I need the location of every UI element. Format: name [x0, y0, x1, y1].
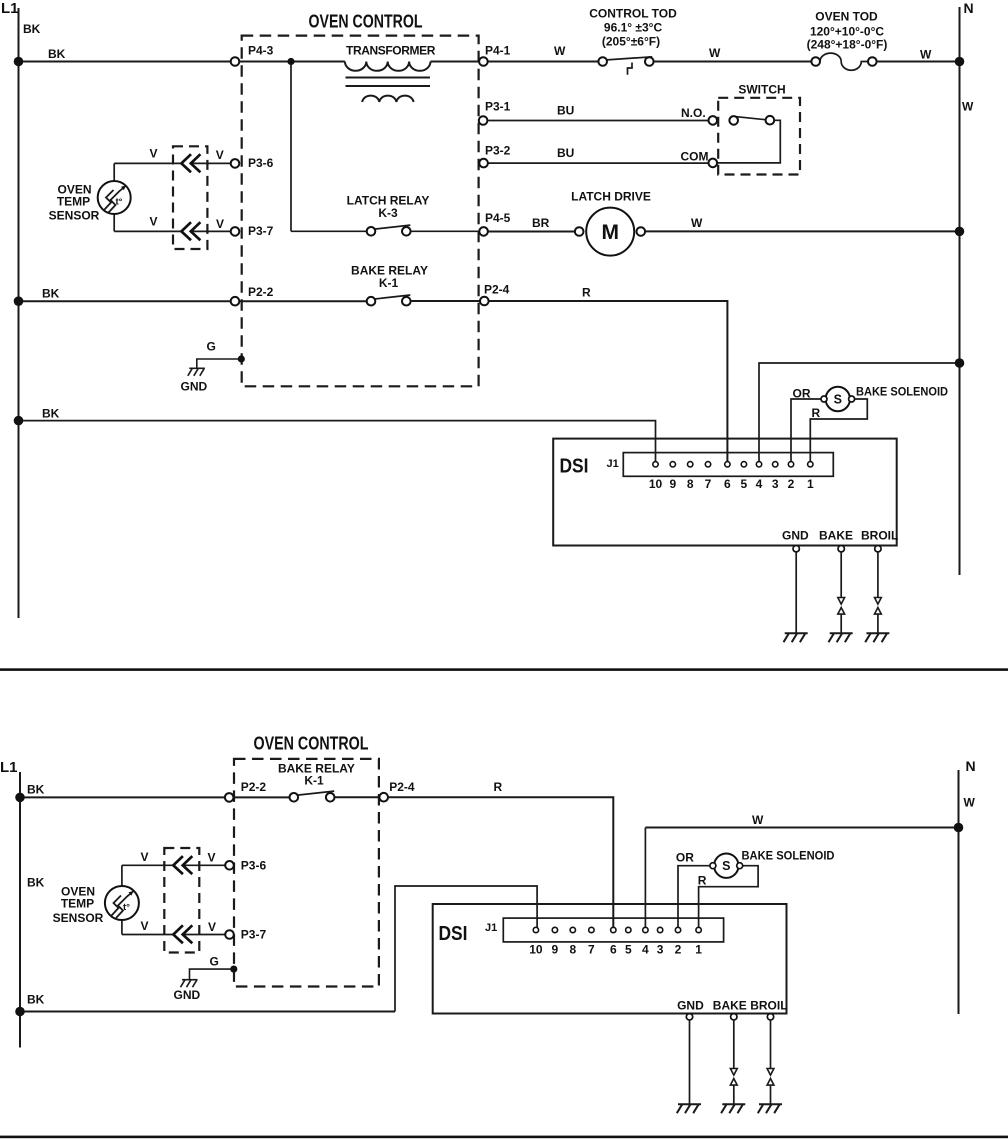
svg-text:BK: BK	[23, 22, 41, 36]
svg-text:R: R	[582, 285, 591, 299]
svg-text:8: 8	[569, 943, 576, 957]
svg-text:BK: BK	[27, 783, 45, 797]
svg-text:W: W	[962, 100, 974, 114]
svg-text:9: 9	[552, 943, 559, 957]
svg-text:BK: BK	[48, 47, 66, 61]
svg-text:10: 10	[649, 477, 663, 491]
svg-text:V: V	[141, 850, 149, 864]
svg-text:BK: BK	[42, 407, 60, 421]
svg-text:W: W	[691, 216, 703, 230]
svg-text:10: 10	[529, 943, 543, 957]
svg-text:L1: L1	[0, 759, 18, 776]
svg-text:P2-2: P2-2	[248, 285, 274, 299]
svg-text:P3-1: P3-1	[485, 99, 511, 113]
svg-text:BK: BK	[42, 287, 60, 301]
svg-text:P3-6: P3-6	[241, 859, 267, 873]
svg-text:S: S	[722, 859, 730, 873]
svg-text:TEMP: TEMP	[57, 194, 90, 208]
svg-text:OVEN CONTROL: OVEN CONTROL	[254, 734, 369, 754]
svg-text:6: 6	[610, 943, 617, 957]
svg-text:V: V	[150, 215, 158, 229]
svg-text:8: 8	[687, 477, 694, 491]
svg-text:96.1° ±3°C: 96.1° ±3°C	[604, 21, 663, 35]
svg-text:K-1: K-1	[379, 276, 399, 290]
svg-text:P3-7: P3-7	[241, 928, 267, 942]
svg-text:R: R	[812, 406, 821, 420]
svg-text:BROIL: BROIL	[861, 529, 898, 543]
svg-text:BAKE: BAKE	[713, 999, 747, 1013]
svg-text:OVEN CONTROL: OVEN CONTROL	[309, 12, 423, 32]
svg-text:7: 7	[705, 477, 712, 491]
svg-text:1: 1	[695, 943, 702, 957]
svg-text:COM: COM	[681, 149, 709, 163]
svg-text:P4-5: P4-5	[485, 211, 511, 225]
svg-text:P3-6: P3-6	[248, 156, 274, 170]
svg-text:G: G	[207, 340, 216, 354]
svg-text:BAKE: BAKE	[819, 529, 853, 543]
svg-text:BAKE SOLENOID: BAKE SOLENOID	[856, 384, 948, 398]
svg-text:P2-2: P2-2	[241, 780, 267, 794]
svg-text:BU: BU	[557, 146, 574, 160]
svg-text:P3-7: P3-7	[248, 224, 274, 238]
svg-text:W: W	[920, 48, 932, 62]
svg-text:t°: t°	[123, 902, 130, 913]
svg-text:DSI: DSI	[439, 923, 468, 945]
svg-text:L1: L1	[1, 0, 19, 17]
svg-text:G: G	[210, 955, 219, 969]
svg-text:3: 3	[657, 943, 664, 957]
svg-text:GND: GND	[174, 988, 201, 1002]
svg-text:4: 4	[756, 477, 763, 491]
svg-text:R: R	[698, 874, 707, 888]
svg-text:P2-4: P2-4	[484, 282, 510, 296]
svg-text:OR: OR	[793, 386, 811, 400]
svg-text:P2-4: P2-4	[389, 780, 415, 794]
svg-text:LATCH DRIVE: LATCH DRIVE	[571, 190, 651, 204]
svg-text:S: S	[834, 392, 842, 406]
svg-text:P4-1: P4-1	[485, 44, 511, 58]
svg-text:2: 2	[788, 477, 795, 491]
svg-text:V: V	[141, 919, 149, 933]
svg-text:OVEN TOD: OVEN TOD	[815, 9, 878, 23]
svg-text:5: 5	[741, 477, 748, 491]
svg-text:OR: OR	[676, 851, 694, 865]
svg-text:9: 9	[669, 477, 676, 491]
svg-text:K-3: K-3	[378, 206, 398, 220]
svg-text:6: 6	[724, 477, 731, 491]
svg-text:J1: J1	[485, 922, 497, 934]
svg-text:SENSOR: SENSOR	[53, 911, 104, 925]
svg-text:N: N	[964, 0, 974, 16]
svg-text:V: V	[208, 920, 216, 934]
svg-text:W: W	[964, 796, 976, 810]
svg-text:7: 7	[588, 943, 595, 957]
svg-text:W: W	[709, 46, 721, 60]
svg-text:SENSOR: SENSOR	[49, 209, 100, 223]
svg-text:P3-2: P3-2	[485, 144, 511, 158]
svg-text:BU: BU	[557, 104, 574, 118]
svg-text:V: V	[150, 147, 158, 161]
svg-text:BR: BR	[532, 216, 550, 230]
svg-text:BAKE SOLENOID: BAKE SOLENOID	[742, 849, 835, 863]
svg-text:(205°±6°F): (205°±6°F)	[602, 35, 660, 49]
svg-text:GND: GND	[181, 379, 208, 393]
svg-text:N.O.: N.O.	[681, 106, 706, 120]
svg-text:DSI: DSI	[560, 456, 589, 478]
svg-text:1: 1	[807, 477, 814, 491]
svg-text:V: V	[216, 217, 224, 231]
svg-text:BROIL: BROIL	[750, 999, 787, 1013]
svg-text:GND: GND	[782, 529, 809, 543]
svg-text:BK: BK	[27, 876, 45, 890]
svg-text:TRANSFORMER: TRANSFORMER	[346, 44, 436, 58]
svg-text:M: M	[601, 221, 619, 244]
svg-text:J1: J1	[607, 458, 619, 470]
svg-text:TEMP: TEMP	[61, 896, 94, 910]
svg-text:BK: BK	[27, 993, 45, 1007]
svg-text:3: 3	[772, 477, 779, 491]
svg-text:2: 2	[675, 943, 682, 957]
svg-text:R: R	[494, 780, 503, 794]
svg-text:5: 5	[625, 943, 632, 957]
svg-text:W: W	[752, 813, 764, 827]
svg-text:(248°+18°-0°F): (248°+18°-0°F)	[807, 38, 888, 52]
svg-text:K-1: K-1	[304, 773, 324, 787]
svg-text:120°+10°-0°C: 120°+10°-0°C	[810, 25, 884, 39]
svg-text:t°: t°	[116, 196, 123, 207]
svg-text:N: N	[966, 758, 976, 774]
svg-text:P4-3: P4-3	[248, 44, 274, 58]
svg-text:GND: GND	[677, 999, 704, 1013]
svg-text:SWITCH: SWITCH	[738, 83, 785, 97]
svg-text:CONTROL TOD: CONTROL TOD	[589, 7, 677, 21]
svg-text:W: W	[554, 44, 566, 58]
svg-text:V: V	[216, 148, 224, 162]
svg-text:V: V	[208, 851, 216, 865]
svg-text:4: 4	[642, 943, 649, 957]
